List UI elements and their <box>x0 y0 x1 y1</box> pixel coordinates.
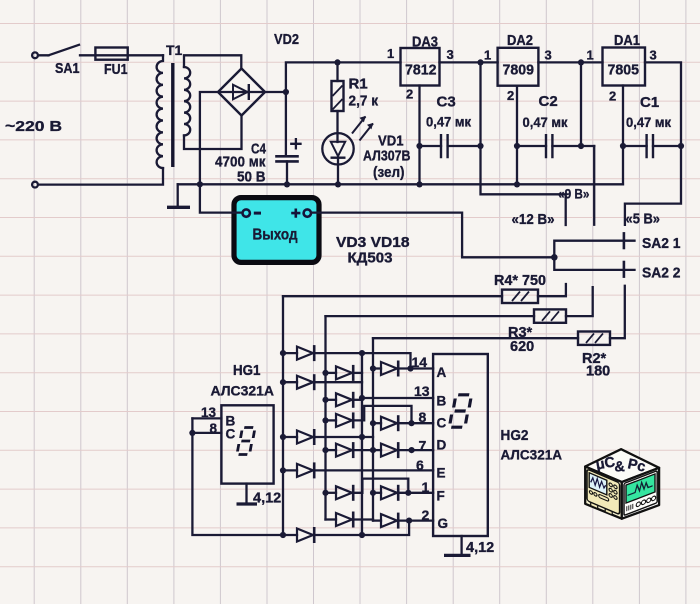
junction <box>370 490 376 496</box>
ground HG1 pins 4,12 <box>237 484 282 507</box>
matrix diode col2 D <box>326 442 374 458</box>
svg-text:G: G <box>438 516 449 531</box>
matrix diode col1 G bottom row <box>283 521 409 543</box>
junction <box>578 143 584 149</box>
switch SA1 <box>38 45 79 77</box>
svg-text:3: 3 <box>545 48 552 63</box>
LED VD1 <box>322 116 410 185</box>
fuse FU1 <box>95 48 127 79</box>
svg-text:2: 2 <box>609 89 616 104</box>
svg-text:VD2: VD2 <box>274 31 299 48</box>
svg-text:FU1: FU1 <box>104 61 128 78</box>
svg-text:HG1: HG1 <box>233 362 261 379</box>
svg-text:50 В: 50 В <box>237 169 266 186</box>
svg-text:SA1: SA1 <box>55 60 80 77</box>
svg-text:АЛС321А: АЛС321А <box>501 447 563 463</box>
ground <box>167 184 190 207</box>
junction <box>280 467 286 473</box>
junction <box>477 59 483 65</box>
svg-text:1: 1 <box>587 48 594 63</box>
wire: column V3 from R2 <box>372 338 374 520</box>
svg-text:F: F <box>437 489 445 504</box>
junction <box>416 143 422 149</box>
matrix diode col3 D <box>373 442 433 458</box>
junction <box>322 417 328 423</box>
logo cube left face: oscilloscope <box>585 467 622 519</box>
svg-text:VD3 VD18: VD3 VD18 <box>336 234 410 251</box>
wire: output plus to SA2 <box>311 213 634 270</box>
matrix diode col1 A <box>283 345 314 361</box>
capacitor C3 <box>420 94 481 159</box>
junction <box>322 447 328 453</box>
svg-text:&: & <box>614 459 626 475</box>
svg-text:SA2 1: SA2 1 <box>642 236 681 252</box>
output block Выход <box>234 198 319 263</box>
resistor R3 <box>326 287 593 355</box>
junction <box>335 181 341 187</box>
resistor R4 <box>283 273 566 303</box>
junction <box>408 420 414 426</box>
matrix diode col3 A <box>373 361 433 377</box>
junction <box>370 447 376 453</box>
junction <box>322 490 328 496</box>
wire: HG1 pin13 <box>192 417 221 419</box>
junction <box>280 350 286 356</box>
matrix diode col2 B <box>326 392 363 408</box>
terminal: mains input top <box>32 52 38 58</box>
svg-text:14: 14 <box>412 354 428 370</box>
wire: DA3 out to DA2 in, 12V tap <box>440 62 566 225</box>
junction <box>359 434 365 440</box>
svg-text:7809: 7809 <box>503 62 535 79</box>
7-segment digit HG1 <box>237 428 255 455</box>
svg-text:4,12: 4,12 <box>253 491 281 507</box>
wire: DA3 pin2 to ground <box>418 86 420 185</box>
junction <box>280 434 286 440</box>
junction <box>359 395 365 401</box>
svg-text:8: 8 <box>419 409 427 425</box>
svg-text:620: 620 <box>510 339 534 355</box>
matrix diode col3 F <box>373 485 433 501</box>
wire: secondary bottom to bridge <box>184 116 242 150</box>
wire: HG1 pin8 loop to matrix <box>192 418 283 535</box>
svg-text:2,7 к: 2,7 к <box>349 93 379 110</box>
junction <box>678 143 684 149</box>
ground HG2 pins 4,12 <box>444 536 494 556</box>
junction <box>405 490 411 496</box>
wire: DA2 out to DA1 in, 9V tap <box>538 62 602 224</box>
svg-text:Выход: Выход <box>253 227 298 244</box>
junction <box>406 518 412 524</box>
svg-text:С1: С1 <box>640 94 659 111</box>
7-segment digit HG2 <box>449 395 471 427</box>
wire: secondary top to bridge <box>184 55 241 68</box>
svg-text:(зел): (зел) <box>373 164 405 181</box>
terminal: mains input bottom <box>32 182 38 188</box>
svg-text:3: 3 <box>447 47 454 62</box>
junction <box>416 181 422 187</box>
svg-text:~220 В: ~220 В <box>5 118 62 135</box>
wire: ground bus <box>178 183 623 185</box>
svg-text:1: 1 <box>387 46 394 61</box>
matrix diode col3 G <box>373 513 433 529</box>
svg-text:2: 2 <box>507 88 514 103</box>
svg-text:«5 В»: «5 В» <box>626 211 661 228</box>
svg-text:АЛС321А: АЛС321А <box>211 383 275 399</box>
svg-text:КД503: КД503 <box>348 250 393 267</box>
junction <box>578 59 584 65</box>
capacitor C4 <box>215 139 301 185</box>
resistor R2 <box>373 286 625 380</box>
svg-text:HG2: HG2 <box>501 427 529 444</box>
svg-text:C3: C3 <box>437 94 456 111</box>
svg-text:DA1: DA1 <box>614 32 640 49</box>
matrix diode col2 G <box>326 512 374 528</box>
matrix diode col1 E <box>283 462 433 478</box>
bridge rectifier VD2 <box>218 31 299 116</box>
svg-text:«12 В»: «12 В» <box>512 211 555 228</box>
svg-text:E: E <box>437 466 446 481</box>
svg-text:2: 2 <box>422 507 430 523</box>
wire: DA2 pin2 to ground <box>516 86 518 185</box>
junction <box>620 143 626 149</box>
switch SA2 contact 1 <box>624 232 681 252</box>
junction <box>189 430 195 436</box>
svg-text:0,47 мк: 0,47 мк <box>626 114 672 130</box>
junction <box>514 181 520 187</box>
svg-text:DA3: DA3 <box>412 34 438 51</box>
junction <box>283 89 289 95</box>
logo cube right face: computer screen <box>622 468 659 519</box>
wire: ground bus to output minus <box>200 184 242 212</box>
svg-text:8: 8 <box>210 421 218 436</box>
transformer T1 <box>157 42 191 168</box>
svg-text:1: 1 <box>422 479 430 495</box>
svg-text:R1: R1 <box>349 76 368 93</box>
svg-text:2: 2 <box>406 87 413 102</box>
svg-text:DA2: DA2 <box>507 32 533 49</box>
wire: row B to HG2 <box>362 397 433 399</box>
junction <box>370 420 376 426</box>
logo cube top face <box>585 449 659 482</box>
svg-text:180: 180 <box>586 364 610 380</box>
junction <box>477 143 483 149</box>
junction <box>280 532 286 538</box>
junction <box>280 379 286 385</box>
svg-text:13: 13 <box>201 405 217 420</box>
junction <box>334 59 340 65</box>
label VD3-VD18 КД503 <box>336 234 410 267</box>
voltage regulator DA2 <box>484 32 552 103</box>
wire: bottom mains to T1 primary <box>38 168 163 185</box>
matrix diode col1 D <box>283 429 373 445</box>
matrix diode col2 C <box>326 406 412 429</box>
junction <box>409 447 415 453</box>
svg-text:A: A <box>437 365 447 380</box>
svg-text:D: D <box>437 438 447 453</box>
junction <box>197 181 203 187</box>
svg-text:13: 13 <box>414 383 430 399</box>
junction <box>359 532 365 538</box>
matrix diode col2 A <box>326 365 363 381</box>
junction <box>322 397 328 403</box>
wire: column V2 from R3 <box>324 316 326 519</box>
display HG1 <box>211 362 275 484</box>
svg-text:C: C <box>226 427 236 442</box>
junction <box>551 254 558 261</box>
svg-text:SA2 2: SA2 2 <box>642 266 681 282</box>
svg-text:C2: C2 <box>539 93 558 110</box>
junction <box>514 143 520 149</box>
junction <box>370 365 376 371</box>
voltage regulator DA1 <box>587 32 657 104</box>
wire: bridge plus rail <box>265 62 401 156</box>
resistor R1 <box>332 62 379 142</box>
matrix diode col2 F <box>326 479 409 501</box>
svg-text:0,47 мк: 0,47 мк <box>426 114 472 130</box>
wire: DA1 out, 5V tap <box>625 62 681 225</box>
matrix diode col3 C <box>373 415 433 431</box>
svg-text:7812: 7812 <box>405 62 437 79</box>
svg-text:0,47 мк: 0,47 мк <box>523 114 569 130</box>
svg-text:1: 1 <box>484 48 491 63</box>
svg-text:B: B <box>437 394 447 409</box>
svg-text:«9 В»: «9 В» <box>558 186 590 202</box>
svg-text:T1: T1 <box>166 42 183 58</box>
wire: column V1 from R4 <box>282 296 284 535</box>
svg-text:АЛ307В: АЛ307В <box>363 148 411 165</box>
svg-text:R4* 750: R4* 750 <box>494 273 546 289</box>
svg-text:3: 3 <box>650 48 657 63</box>
switch SA2 contact 2 <box>624 261 681 282</box>
matrix diode col1 B <box>283 374 362 390</box>
display HG2 <box>433 354 562 536</box>
svg-text:4,12: 4,12 <box>466 540 494 556</box>
junction <box>359 350 365 356</box>
wire: switch to fuse to T1 <box>80 54 163 56</box>
capacitor C1 <box>623 94 681 158</box>
svg-text:7: 7 <box>419 438 427 454</box>
junction <box>407 365 413 371</box>
wire: row A link <box>315 353 411 368</box>
svg-text:7805: 7805 <box>608 62 640 79</box>
junction <box>284 181 290 187</box>
wire: DA1 pin2 to ground <box>622 86 624 185</box>
voltage regulator DA3 <box>387 34 454 102</box>
wire: bridge minus to ground bus <box>200 92 218 184</box>
junction <box>322 370 328 376</box>
capacitor C2 <box>517 93 594 158</box>
svg-text:6: 6 <box>416 457 424 473</box>
svg-text:C: C <box>437 416 447 431</box>
wire: riser V4 <box>361 353 363 535</box>
